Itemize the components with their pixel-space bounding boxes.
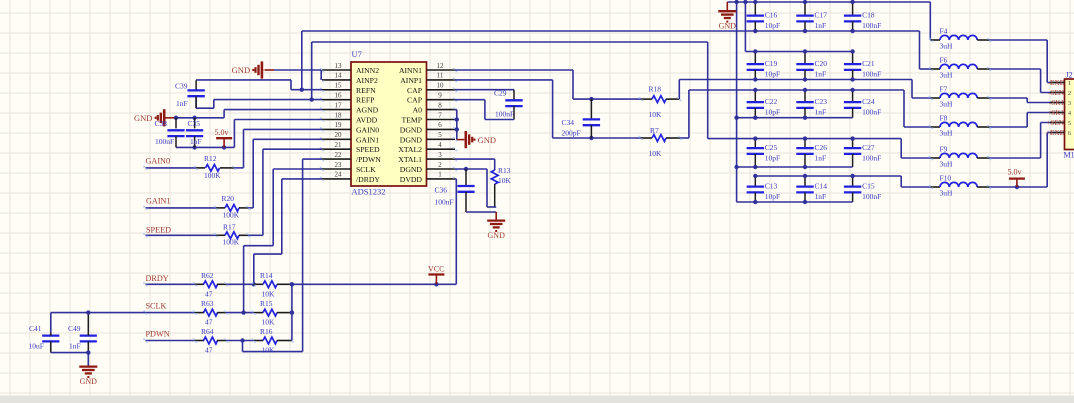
svg-text:DVDD: DVDD [400,175,423,184]
svg-text:1nF: 1nF [815,108,827,117]
svg-text:GND: GND [719,22,737,31]
svg-text:AINN1: AINN1 [399,66,422,75]
svg-text:13: 13 [335,62,343,70]
svg-text:C21: C21 [862,59,875,68]
svg-text:47: 47 [205,318,213,327]
svg-text:3uH: 3uH [940,160,954,169]
svg-text:C15: C15 [862,182,875,191]
svg-text:PDWN: PDWN [146,330,170,339]
svg-text:ADS1232: ADS1232 [352,187,386,197]
svg-text:10K: 10K [649,110,663,119]
svg-text:C39: C39 [175,82,188,91]
svg-text:F6: F6 [940,56,948,65]
svg-text:A0: A0 [413,106,423,115]
svg-text:200pF: 200pF [562,128,581,137]
svg-text:+SEN: +SEN [1046,119,1064,127]
svg-text:20: 20 [335,131,343,139]
svg-text:C24: C24 [862,97,875,106]
svg-text:2: 2 [438,161,442,169]
svg-text:GAIN0: GAIN0 [356,125,379,134]
svg-text:100K: 100K [223,238,240,247]
svg-text:J2: J2 [1066,71,1073,80]
svg-text:REFN: REFN [356,86,376,95]
svg-text:-SK1: -SK1 [1049,99,1065,107]
svg-text:22: 22 [335,151,343,159]
svg-text:3uH: 3uH [940,100,954,109]
svg-text:C23: C23 [815,97,828,106]
svg-text:1: 1 [1068,81,1071,87]
svg-text:R20: R20 [222,194,235,203]
svg-text:3: 3 [438,151,442,159]
svg-text:F7: F7 [940,85,948,94]
svg-text:21: 21 [335,141,343,149]
svg-text:GND: GND [134,113,152,123]
svg-text:C26: C26 [815,143,828,152]
svg-text:100nF: 100nF [435,197,454,206]
svg-text:15: 15 [335,82,343,90]
svg-text:XTAL2: XTAL2 [398,145,422,154]
svg-text:23: 23 [335,161,343,169]
svg-text:C17: C17 [815,11,828,20]
svg-text:DGND: DGND [400,125,423,134]
svg-text:F4: F4 [940,27,948,36]
svg-text:C16: C16 [765,11,778,20]
svg-text:DGND: DGND [400,135,423,144]
svg-text:C25: C25 [765,143,778,152]
svg-text:1nF: 1nF [815,21,827,30]
svg-text:AVDD: AVDD [356,116,378,125]
svg-text:R63: R63 [201,299,214,308]
svg-text:SPEED: SPEED [356,145,380,154]
svg-text:C35: C35 [188,119,201,128]
svg-text:REFP: REFP [356,96,374,105]
svg-text:10pF: 10pF [765,108,780,117]
svg-text:F8: F8 [940,114,948,123]
svg-text:C34: C34 [562,118,575,127]
svg-text:R7: R7 [650,126,659,135]
svg-text:C18: C18 [862,11,875,20]
svg-text:M1: M1 [1064,151,1074,160]
svg-text:8: 8 [438,101,442,109]
svg-text:7: 7 [438,111,442,119]
svg-text:1nF: 1nF [176,99,188,108]
svg-text:R12: R12 [204,154,217,163]
svg-text:4: 4 [438,141,442,149]
svg-text:100K: 100K [204,171,221,180]
svg-text:5: 5 [1068,121,1071,127]
svg-text:F10: F10 [940,174,952,183]
svg-text:1nF: 1nF [69,342,81,351]
svg-text:VCC: VCC [428,265,444,274]
svg-text:GND: GND [478,135,496,145]
svg-text:10K: 10K [262,318,276,327]
svg-text:19: 19 [335,121,343,129]
svg-text:4: 4 [1068,111,1071,117]
svg-text:GND: GND [488,231,506,240]
svg-text:C41: C41 [29,324,42,333]
svg-text:AGND: AGND [356,106,379,115]
svg-text:3: 3 [1068,101,1071,107]
svg-text:3uH: 3uH [940,129,954,138]
svg-text:2: 2 [1068,91,1071,97]
svg-text:6: 6 [438,121,442,129]
svg-text:6: 6 [1068,131,1071,137]
svg-text:1: 1 [438,171,442,179]
svg-text:C29: C29 [494,88,507,97]
svg-text:3uH: 3uH [940,42,954,51]
svg-text:C38: C38 [155,119,168,128]
svg-text:SPEED: SPEED [146,226,171,235]
svg-text:R16: R16 [260,327,273,336]
svg-text:GND: GND [80,377,98,386]
svg-text:GAIN0: GAIN0 [146,157,171,166]
svg-text:100nF: 100nF [862,21,881,30]
svg-text:AINP1: AINP1 [400,76,422,85]
svg-text:100nF: 100nF [155,137,174,146]
svg-text:5.0v: 5.0v [1008,167,1022,176]
svg-text:1nF: 1nF [190,137,202,146]
svg-text:10: 10 [437,82,445,90]
svg-text:14: 14 [335,72,343,80]
svg-text:R13: R13 [498,166,511,175]
svg-text:+SK1: +SK1 [1047,109,1064,117]
svg-text:100nF: 100nF [495,109,514,118]
svg-text:24: 24 [335,171,343,179]
svg-text:CAP: CAP [407,86,422,95]
svg-text:C49: C49 [68,324,81,333]
svg-text:DGND: DGND [400,165,423,174]
svg-text:GND: GND [232,65,250,75]
svg-text:100nF: 100nF [862,192,881,201]
svg-text:5.0v: 5.0v [215,128,229,137]
svg-text:DRDY: DRDY [146,274,169,283]
svg-text:1nF: 1nF [815,70,827,79]
svg-text:AINN2: AINN2 [356,66,379,75]
svg-text:10pF: 10pF [765,21,780,30]
svg-text:R15: R15 [260,299,273,308]
svg-text:100nF: 100nF [862,70,881,79]
svg-text:11: 11 [437,72,444,80]
svg-text:R64: R64 [201,327,214,336]
svg-text:1nF: 1nF [815,192,827,201]
svg-text:XTAL1: XTAL1 [398,155,422,164]
svg-text:100nF: 100nF [862,154,881,163]
svg-text:17: 17 [335,101,343,109]
svg-text:CAP: CAP [407,96,422,105]
svg-text:47: 47 [205,346,213,355]
svg-text:C27: C27 [862,143,875,152]
svg-text:10K: 10K [262,289,276,298]
svg-text:12: 12 [437,62,445,70]
svg-text:GAIN1: GAIN1 [146,197,171,206]
svg-text:47: 47 [205,289,213,298]
svg-text:SCLK: SCLK [356,165,376,174]
svg-text:/DRDY: /DRDY [356,175,380,184]
svg-text:C13: C13 [765,182,778,191]
svg-text:R14: R14 [260,271,273,280]
svg-text:100K: 100K [223,210,240,219]
svg-text:TEMP: TEMP [401,116,422,125]
svg-text:-SEN: -SEN [1048,89,1065,97]
svg-text:10uF: 10uF [29,342,44,351]
svg-text:10K: 10K [649,149,663,158]
svg-text:-EXE: -EXE [1048,79,1065,87]
svg-text:C20: C20 [815,59,828,68]
svg-text:18: 18 [335,111,343,119]
svg-text:GAIN1: GAIN1 [356,135,379,144]
svg-text:5: 5 [438,131,442,139]
svg-text:+EXE: +EXE [1046,129,1065,137]
svg-text:10pF: 10pF [765,70,780,79]
svg-text:U7: U7 [352,49,362,59]
svg-text:R18: R18 [649,84,662,93]
svg-text:3uH: 3uH [940,71,954,80]
svg-text:10K: 10K [262,346,276,355]
svg-text:10pF: 10pF [765,154,780,163]
svg-text:C36: C36 [435,185,448,194]
svg-text:C22: C22 [765,97,778,106]
svg-text:1nF: 1nF [815,154,827,163]
svg-text:F9: F9 [940,145,948,154]
svg-text:10K: 10K [498,176,512,185]
svg-text:/PDWN: /PDWN [356,155,381,164]
svg-text:16: 16 [335,92,343,100]
svg-text:100nF: 100nF [862,108,881,117]
svg-text:C14: C14 [815,182,828,191]
svg-text:AINP2: AINP2 [356,76,378,85]
svg-text:C19: C19 [765,59,778,68]
svg-text:SCLK: SCLK [146,302,167,311]
svg-text:R17: R17 [223,223,236,232]
svg-text:9: 9 [438,92,442,100]
svg-text:10pF: 10pF [765,192,780,201]
svg-text:R62: R62 [201,271,214,280]
svg-text:3uH: 3uH [940,189,954,198]
